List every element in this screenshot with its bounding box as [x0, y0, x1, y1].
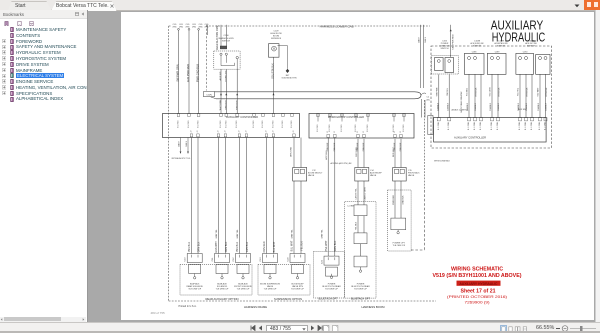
svg-text:E-1 ORN: E-1 ORN: [491, 121, 493, 130]
svg-text:E-2 SIG: E-2 SIG: [393, 124, 395, 132]
svg-text:TLE DRW C/F: TLE DRW C/F: [216, 289, 230, 291]
svg-text:BLU WHT: BLU WHT: [291, 240, 294, 251]
svg-text:J1: J1: [334, 131, 336, 133]
svg-text:ORN BLK: ORN BLK: [198, 241, 201, 252]
connector pair C12 (option column 3): [233, 254, 251, 279]
small junction box left of A3: [428, 116, 433, 135]
svg-text:E-4 SIG: E-4 SIG: [236, 120, 238, 128]
svg-text:J2: J2: [239, 131, 241, 133]
wire bundle: cab power wires into auxiliary controller: [178, 28, 200, 113]
wire labels below switch: [219, 70, 238, 110]
labels above controller A3: [452, 108, 527, 111]
bluetooth option box B tall (dashed): [345, 202, 376, 299]
switch C1089 ACE attach: [487, 41, 507, 75]
wire pair A2 to valve driver B: [355, 139, 383, 181]
svg-text:C20: C20: [288, 257, 290, 262]
svg-text:(FM): (FM): [186, 26, 190, 28]
svg-text:VALVE: VALVE: [370, 174, 377, 177]
svg-text:CAN H: CAN H: [177, 140, 180, 147]
wire stub with vertical label at left of switch: [208, 25, 220, 50]
svg-text:GND BLK: GND BLK: [402, 195, 404, 205]
svg-text:YEL BLK: YEL BLK: [301, 241, 304, 251]
svg-text:E-4 SIG: E-4 SIG: [262, 120, 264, 128]
svg-text:POWER OPT: POWER OPT: [393, 243, 406, 245]
svg-text:E-1 ORN: E-1 ORN: [545, 121, 547, 130]
svg-text:J2: J2: [246, 131, 248, 133]
svg-text:WORKGROUP CONTROLLER: WORKGROUP CONTROLLER: [328, 115, 364, 119]
svg-text:RTN BLK: RTN BLK: [498, 87, 500, 96]
svg-text:PWR RED: PWR RED: [393, 195, 395, 205]
svg-text:C12: C12: [233, 257, 235, 262]
svg-text:E-1 ORN: E-1 ORN: [525, 121, 527, 130]
svg-text:J2: J2: [225, 131, 227, 133]
svg-text:WHT/COMM BLK: WHT/COMM BLK: [434, 161, 450, 163]
svg-text:(FM): (FM): [192, 26, 196, 28]
svg-text:E-1 ORN: E-1 ORN: [474, 121, 476, 130]
svg-text:HARNESS BOOM: HARNESS BOOM: [362, 305, 386, 309]
bluetooth option box A (dashed): [314, 252, 345, 299]
svg-text:E-1 ORN: E-1 ORN: [480, 121, 482, 130]
svg-text:GRN YEL: GRN YEL: [322, 229, 324, 239]
svg-text:J2: J2: [191, 131, 193, 133]
auxiliary controller A1 (left): [163, 114, 300, 138]
svg-text:CAN L: CAN L: [424, 36, 427, 43]
wire pair A2 to bluetooth connector A: [325, 138, 337, 256]
bluetooth option labels: [319, 298, 371, 301]
inner harness dashed divider: [205, 25, 207, 91]
wire pair A2 to valve driver C: [393, 139, 420, 218]
svg-text:TLE DRW C/F: TLE DRW C/F: [291, 289, 305, 291]
svg-text:GRN YEL: GRN YEL: [216, 229, 218, 239]
svg-text:J2: J2: [293, 131, 295, 133]
svg-text:C2A BLK: C2A BLK: [544, 102, 547, 111]
svg-text:C2A BLK: C2A BLK: [537, 102, 540, 111]
svg-text:E-2 SIG: E-2 SIG: [355, 124, 357, 132]
svg-text:SW PWR ORN: SW PWR ORN: [176, 64, 180, 82]
svg-text:E-1 ORN: E-1 ORN: [531, 121, 533, 130]
bus end labels at right: [427, 97, 430, 102]
svg-text:E-1 ORN: E-1 ORN: [448, 121, 450, 130]
svg-text:SOL RTN BLK: SOL RTN BLK: [272, 63, 275, 79]
svg-text:TLE DRW C/F: TLE DRW C/F: [354, 289, 368, 291]
status bar: [0, 322, 600, 333]
controller A1 interior pin labels: [178, 120, 296, 132]
controller A1 top pin boxes: [177, 114, 293, 117]
svg-text:BLUETACH OPT: BLUETACH OPT: [351, 298, 370, 301]
svg-text:RTN BLK: RTN BLK: [475, 87, 477, 96]
svg-text:J1: J1: [357, 131, 359, 133]
svg-text:E-2 SIG: E-2 SIG: [403, 124, 405, 132]
connector pair C22 (bluetooth A): [322, 256, 340, 278]
svg-text:ACS ING (ACS PNL) BK: ACS ING (ACS PNL) BK: [331, 162, 353, 165]
svg-text:CAN HI YEL: CAN HI YEL: [355, 187, 358, 199]
svg-text:HARNESS FRAME: HARNESS FRAME: [244, 305, 267, 309]
svg-text:RTN BLK: RTN BLK: [546, 87, 548, 96]
svg-text:AUXILIARY HYDRAULIC: AUXILIARY HYDRAULIC: [460, 282, 498, 286]
suspension option box (dashed): [258, 265, 310, 301]
svg-text:SUSPENSION OPTION: SUSPENSION OPTION: [274, 297, 302, 301]
svg-text:(PRINTED OCTOBER 2016): (PRINTED OCTOBER 2016): [447, 295, 507, 299]
svg-text:SUSPENSION: SUSPENSION: [271, 38, 281, 40]
svg-text:J2: J2: [218, 131, 220, 133]
svg-text:ORN BLK: ORN BLK: [225, 100, 227, 110]
svg-text:E-4 SIG: E-4 SIG: [188, 120, 190, 128]
svg-text:(FM): (FM): [179, 26, 183, 28]
bus tap arrows: [220, 93, 275, 95]
svg-text:(M): (M): [427, 99, 430, 101]
svg-text:E-4 SIG: E-4 SIG: [225, 120, 227, 128]
svg-text:SWITCH: SWITCH: [473, 46, 481, 48]
solenoid L9 high flow boom suspension: [269, 31, 282, 58]
svg-text:ORN RED: ORN RED: [263, 241, 266, 252]
svg-text:SWITCH: SWITCH: [441, 48, 449, 50]
svg-text:GRN YEL: GRN YEL: [292, 229, 294, 239]
svg-text:AUX SIG: AUX SIG: [219, 71, 222, 80]
svg-text:E-4 SIG: E-4 SIG: [291, 120, 293, 128]
svg-text:C2: C2: [427, 97, 430, 99]
svg-text:C2A BLK: C2A BLK: [436, 102, 439, 111]
svg-text:C190: C190: [523, 51, 528, 53]
tiny wire color labels above connector row: [216, 229, 324, 239]
controller A3 top pin boxes: [437, 118, 547, 121]
option labels under connector columns: [186, 283, 370, 291]
harness boom region dashed corner: [411, 190, 425, 250]
svg-text:E-4 SIG: E-4 SIG: [253, 120, 255, 128]
svg-text:483 of 755: 483 of 755: [151, 311, 166, 315]
svg-text:J1: J1: [363, 131, 365, 133]
svg-text:GRN YEL: GRN YEL: [237, 229, 239, 239]
svg-text:E-2 SIG: E-2 SIG: [341, 124, 343, 132]
svg-text:E-2 SIG: E-2 SIG: [367, 124, 369, 132]
controller A2 bottom pin boxes: [327, 134, 402, 137]
svg-text:V519 (S/N B3YH11001 AND ABOVE): V519 (S/N B3YH11001 AND ABOVE): [433, 273, 522, 279]
wire pair to option connector column 3: [236, 138, 249, 254]
svg-text:SW SIG: SW SIG: [447, 88, 449, 96]
wires from right switches down to controller A3: [439, 74, 546, 117]
solenoid return wire to controller: [272, 57, 275, 113]
svg-text:CAB PWR RED: CAB PWR RED: [452, 34, 455, 50]
ground reference diamond at right of solenoid: [278, 46, 298, 80]
svg-text:(FM): (FM): [205, 26, 209, 28]
svg-text:C2A BLK: C2A BLK: [447, 102, 450, 111]
controller A2 interior pin labels: [317, 124, 405, 133]
svg-text:E-4 SIG: E-4 SIG: [178, 120, 180, 128]
svg-text:C22: C22: [322, 259, 324, 264]
node label HARNESS LOWER CAB: [320, 26, 354, 29]
wires from top border into right section: [417, 25, 454, 88]
svg-text:E-4 SIG: E-4 SIG: [198, 120, 200, 128]
rear auxiliary option box (dashed): [180, 265, 252, 301]
svg-text:PNK BLK: PNK BLK: [236, 242, 239, 253]
svg-text:YEL BLK: YEL BLK: [356, 221, 358, 230]
diagnostic stub wires below controller A1: [172, 138, 192, 161]
svg-text:C2A BLK: C2A BLK: [489, 102, 492, 111]
svg-text:C2A BLK: C2A BLK: [497, 102, 500, 111]
svg-text:ORN GRN: ORN GRN: [291, 146, 293, 157]
svg-text:WIRING SCHEMATIC: WIRING SCHEMATIC: [451, 267, 503, 273]
svg-text:J1: J1: [400, 131, 402, 133]
bookmarks sidebar: [0, 10, 88, 322]
svg-text:TLE DRW C/F: TLE DRW C/F: [188, 289, 202, 291]
svg-text:E-1 ORN: E-1 ORN: [497, 121, 499, 130]
red title block: sheet info: [433, 267, 522, 305]
connector pair C13 (option column 4): [260, 254, 278, 279]
svg-text:SIG YEL: SIG YEL: [518, 87, 520, 96]
svg-text:CAN L: CAN L: [185, 140, 188, 147]
svg-text:RTN BLK: RTN BLK: [526, 87, 528, 96]
svg-text:J2: J2: [197, 131, 199, 133]
svg-text:CAN H: CAN H: [417, 36, 420, 43]
svg-text:AUX PWR RED: AUX PWR RED: [186, 64, 190, 82]
svg-text:GRY BLK: GRY BLK: [246, 241, 249, 252]
svg-text:TLE DRW C/F: TLE DRW C/F: [237, 289, 251, 291]
svg-text:BLK WHT: BLK WHT: [273, 241, 276, 252]
svg-text:PWR GND BLK: PWR GND BLK: [196, 64, 200, 82]
power option box (dashed): [388, 190, 412, 251]
svg-text:E-2 SIG: E-2 SIG: [329, 124, 331, 132]
svg-text:SIG BLU: SIG BLU: [467, 87, 469, 96]
svg-text:SOLENOID RTN: SOLENOID RTN: [282, 78, 298, 80]
wire harness region border (HARNESS CAB, dashed): [169, 26, 436, 301]
wire labels hanging below controller A2: [327, 142, 402, 151]
svg-text:WHT GRN: WHT GRN: [220, 99, 222, 110]
svg-text:C-OEM: C-OEM: [347, 206, 354, 208]
svg-text:E-1 ORN: E-1 ORN: [438, 121, 440, 130]
svg-text:BLUETACH OPT: BLUETACH OPT: [319, 298, 338, 301]
switch S06 rear auxiliary / horn: [214, 25, 240, 69]
controller A3 interior pin labels: [438, 121, 547, 130]
svg-text:HARNESS LOWER CAB: HARNESS LOWER CAB: [320, 26, 354, 29]
svg-text:HYDRAULIC: HYDRAULIC: [492, 31, 546, 45]
svg-text:AUXILIARY CONTROLLER: AUXILIARY CONTROLLER: [226, 115, 258, 119]
svg-text:(FM): (FM): [173, 26, 177, 28]
svg-text:C10: C10: [185, 257, 187, 262]
wires from bus end down to right controller: [422, 99, 426, 118]
svg-text:E-2 SIG: E-2 SIG: [317, 124, 319, 132]
wire labels SW PWR ORN / AUX PWR RED / PWR GND BLK: [176, 64, 200, 82]
svg-text:C13: C13: [260, 257, 262, 262]
svg-text:Printed In U.S.A.: Printed In U.S.A.: [179, 304, 197, 308]
svg-text:TLE DRW C/F: TLE DRW C/F: [325, 289, 339, 291]
svg-text:E-4 SIG: E-4 SIG: [282, 120, 284, 128]
svg-text:AUX RELIEF: AUX RELIEF: [370, 172, 382, 175]
wire labels right section: [434, 87, 548, 163]
wire pair to option connector column 4: [263, 138, 276, 254]
svg-text:FRONT AUX: FRONT AUX: [408, 172, 420, 175]
svg-text:RED BLK: RED BLK: [236, 100, 238, 110]
wire pair from A2 via valve driver to suspension connector: [291, 138, 324, 254]
svg-text:PNK WHT: PNK WHT: [325, 240, 328, 252]
svg-text:E-4 SIG: E-4 SIG: [273, 120, 275, 128]
switch C1088 ACE slide: [464, 41, 484, 75]
svg-text:C188: C188: [472, 51, 477, 53]
svg-text:SWITCH: SWITCH: [527, 46, 535, 48]
page footer texts: [151, 304, 197, 315]
svg-text:AUX SW: AUX SW: [518, 108, 526, 111]
svg-text:HORN SIG: HORN SIG: [225, 70, 227, 81]
svg-text:ORN BLK: ORN BLK: [225, 241, 228, 252]
connector pair C11 (option column 2): [212, 254, 230, 279]
svg-text:C189: C189: [495, 51, 500, 53]
switch block right edge: [536, 55, 550, 75]
svg-text:TLE OEM C/F: TLE OEM C/F: [393, 245, 406, 247]
svg-text:CAN LO GRN: CAN LO GRN: [364, 187, 367, 200]
CAN bus harness run (flattened loop): [207, 92, 426, 99]
svg-text:J2: J2: [266, 131, 268, 133]
svg-text:C2A BLK: C2A BLK: [474, 102, 477, 111]
svg-text:TLE DRW C/F: TLE DRW C/F: [264, 289, 278, 291]
connector C194 power connector switch (dashed enclosure): [432, 41, 459, 75]
wire pair to option connector column 1: [188, 138, 201, 254]
svg-text:REAR AUXILIARY OPTION: REAR AUXILIARY OPTION: [206, 297, 239, 301]
svg-text:A3 AUX CONTROL: A3 AUX CONTROL: [452, 109, 470, 112]
document page: [121, 12, 594, 320]
svg-text:ACC BLU: ACC BLU: [325, 150, 328, 160]
svg-text:WFT/DIAGNOSTIC TOOL: WFT/DIAGNOSTIC TOOL: [172, 157, 192, 160]
svg-text:E-1 ORN: E-1 ORN: [519, 121, 521, 130]
svg-text:GRN WHT: GRN WHT: [215, 241, 218, 253]
svg-text:RED WHT: RED WHT: [393, 146, 395, 157]
wire pair to option connector column 2: [215, 138, 228, 254]
svg-text:SWITCH: SWITCH: [497, 46, 505, 48]
workgroup controller A2: [309, 114, 414, 139]
controller A1 bottom pin boxes: [190, 134, 295, 137]
svg-text:VALVE: VALVE: [408, 174, 415, 177]
svg-text:Sheet 17 of 21: Sheet 17 of 21: [461, 289, 496, 295]
top tab bar: [0, 0, 600, 11]
svg-text:7269900 (9): 7269900 (9): [465, 301, 490, 305]
svg-text:VALVE: VALVE: [308, 174, 315, 177]
connector labels row above top border: [172, 23, 220, 28]
connector C30 (power option): [391, 218, 406, 247]
svg-text:SW PWR: SW PWR: [437, 87, 439, 96]
sheet title AUXILIARY HYDRAULIC: [491, 19, 546, 45]
connector chain C-OEM in bluetooth B: [347, 181, 367, 272]
svg-text:SIG GRN: SIG GRN: [490, 87, 492, 96]
auxiliary hydraulic valve harness box (dashed): [431, 46, 552, 148]
svg-text:E-1 ORN: E-1 ORN: [468, 121, 470, 130]
svg-text:C2(F): C2(F): [206, 94, 212, 96]
svg-text:(FM): (FM): [199, 26, 203, 28]
svg-text:SIG WHT: SIG WHT: [538, 87, 540, 97]
auxiliary controller A3 (right): [434, 118, 546, 143]
harness region labels: [244, 305, 385, 309]
svg-text:E-1 ORN: E-1 ORN: [539, 121, 541, 130]
svg-text:C11: C11: [212, 257, 214, 262]
svg-text:E-4 SIG: E-4 SIG: [220, 120, 222, 128]
svg-text:GRN BLK: GRN BLK: [334, 240, 337, 251]
svg-text:J2: J2: [273, 131, 275, 133]
svg-text:J1: J1: [394, 131, 396, 133]
svg-text:GRY RED: GRY RED: [356, 147, 358, 157]
svg-text:AUXILIARY CONTROLLER: AUXILIARY CONTROLLER: [454, 137, 486, 140]
switch C1090 ACE NC: [516, 41, 537, 75]
wires from switch S06 down across bus to controller: [221, 69, 237, 113]
connector pair C20 (suspension column 2): [288, 254, 306, 279]
svg-text:J1: J1: [327, 131, 329, 133]
connector C2 at bus left end: [204, 92, 215, 97]
connector pair C10 (option column 1): [185, 254, 203, 279]
controller A2 top pin stubs: [317, 114, 406, 122]
svg-text:PNK BLK: PNK BLK: [188, 242, 191, 253]
